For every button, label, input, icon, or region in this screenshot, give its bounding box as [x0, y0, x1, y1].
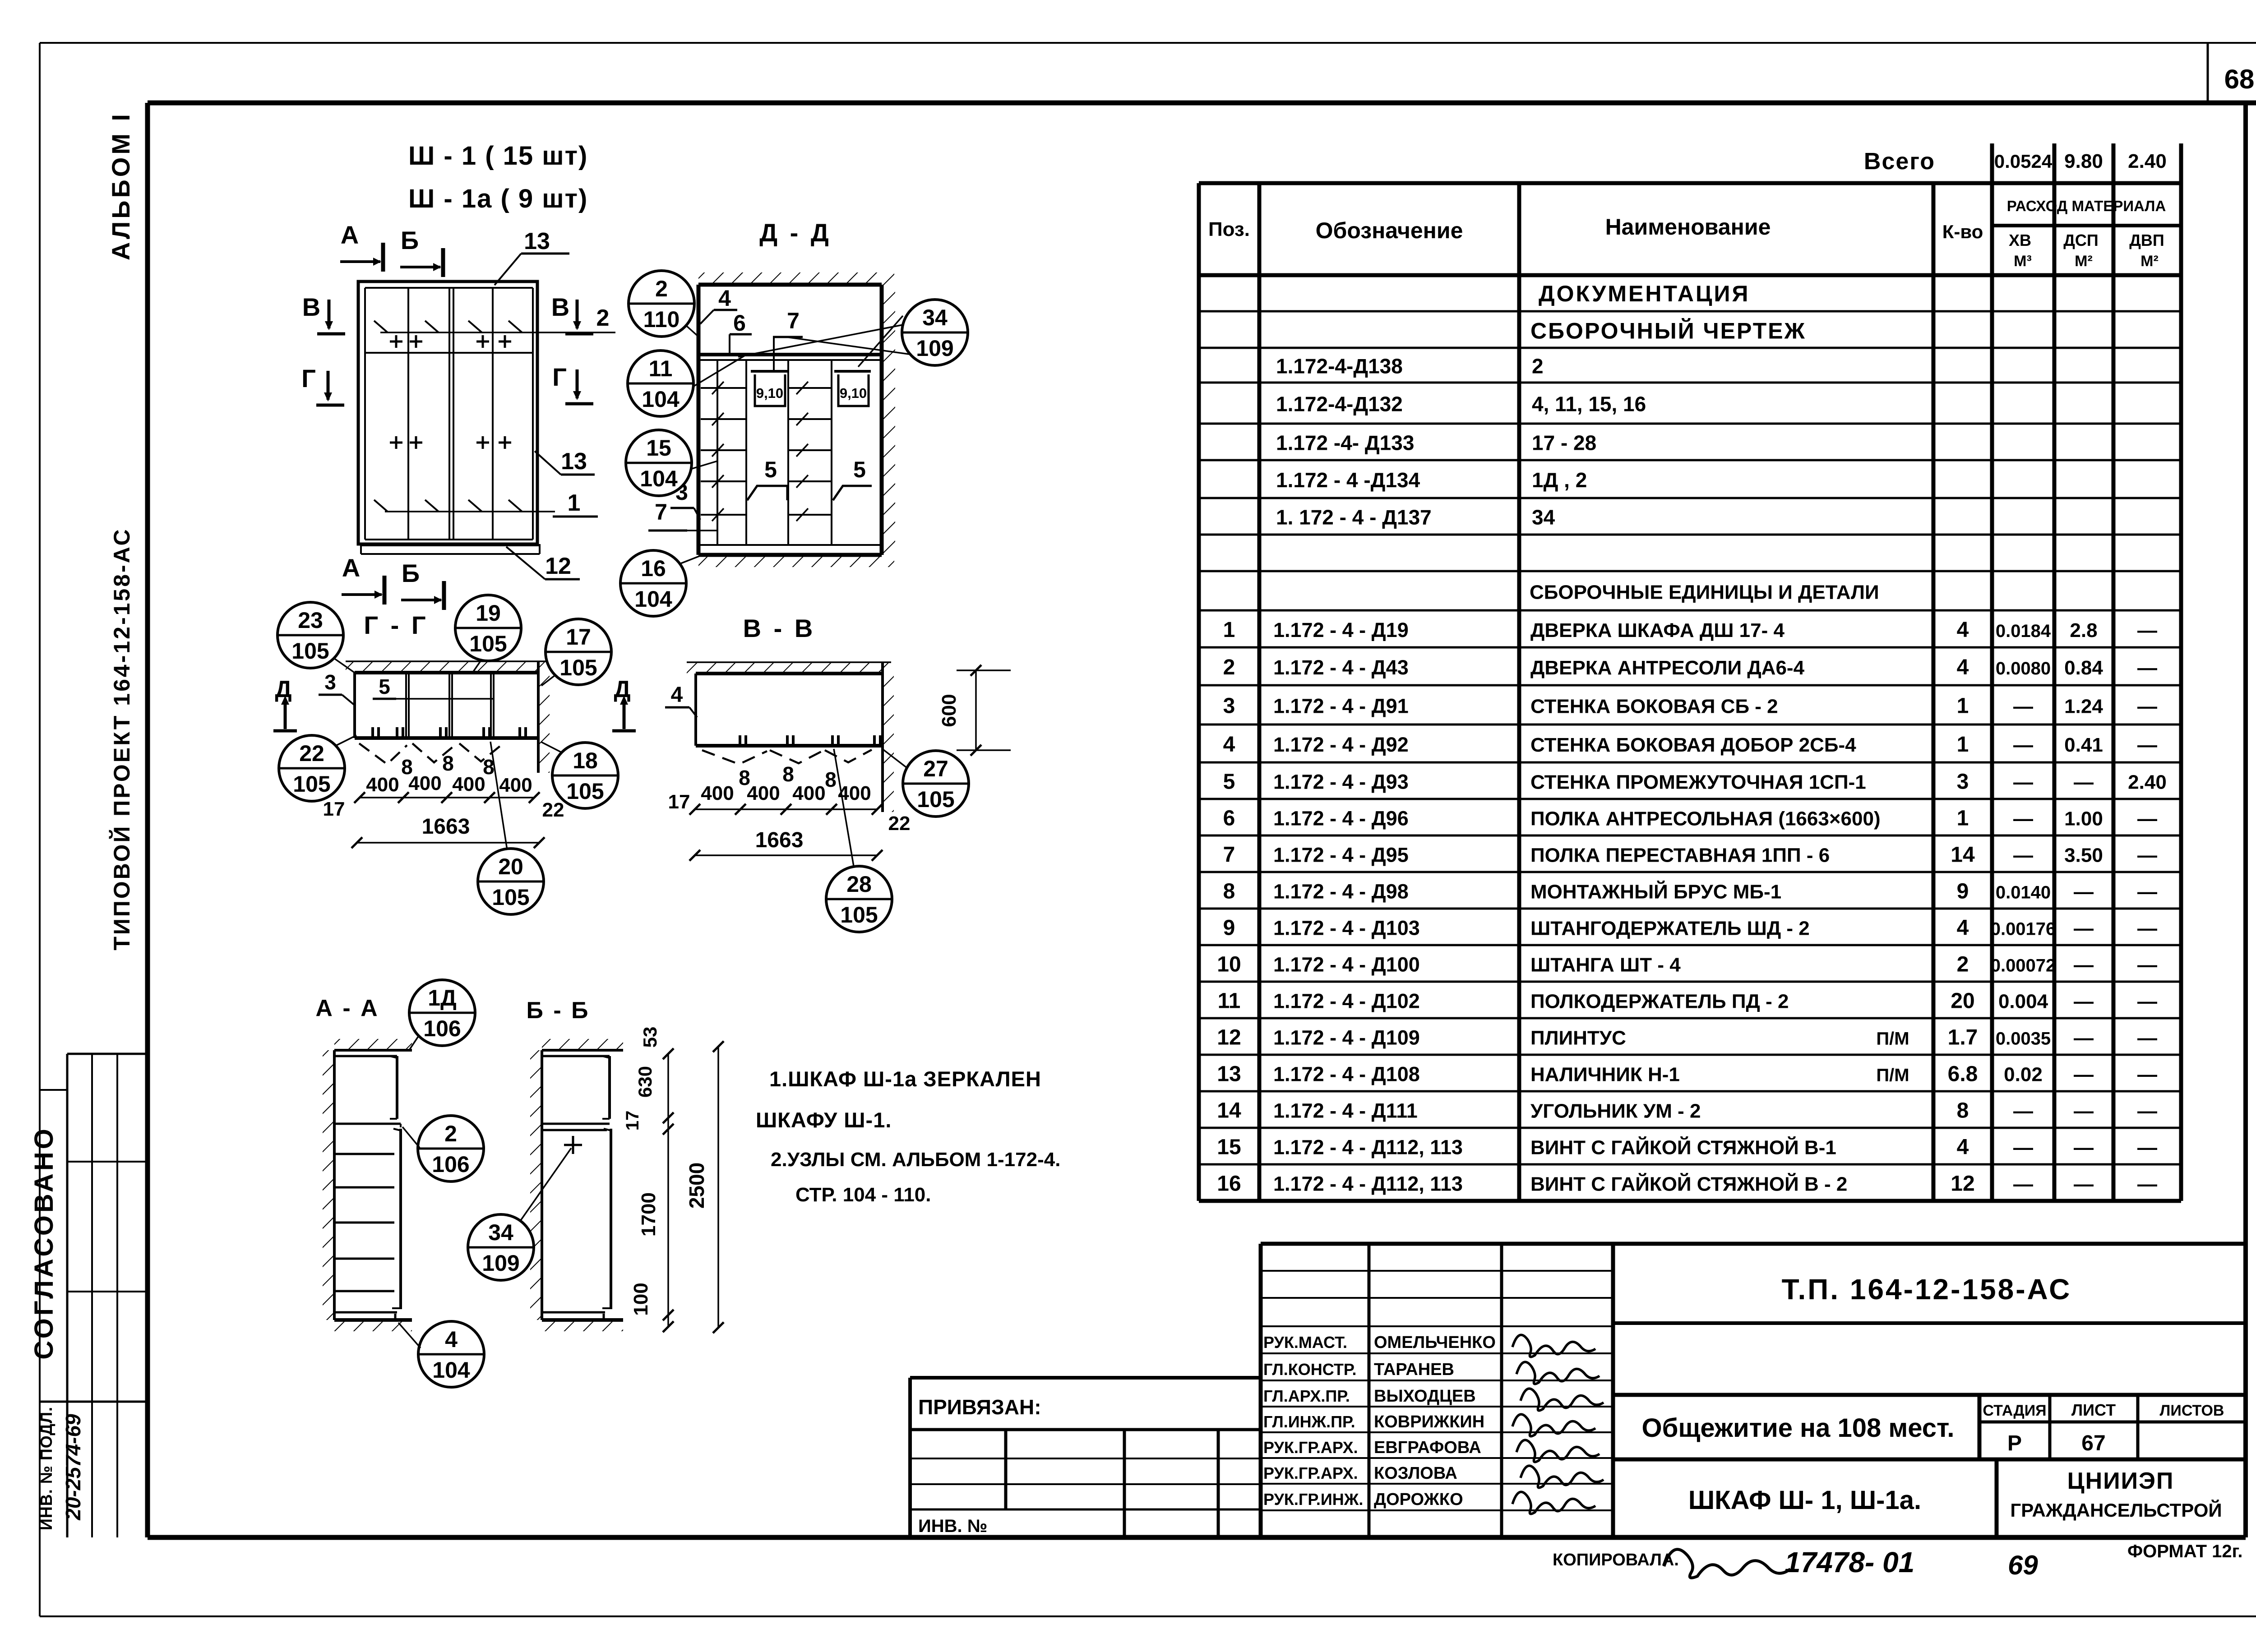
svg-text:19: 19 [476, 600, 501, 626]
svg-text:ВИНТ С ГАЙКОЙ СТЯЖНОЙ В-1: ВИНТ С ГАЙКОЙ СТЯЖНОЙ В-1 [1530, 1136, 1836, 1159]
svg-text:34: 34 [922, 305, 948, 330]
svg-text:ПОЛКА АНТРЕСОЛЬНАЯ (1663×600): ПОЛКА АНТРЕСОЛЬНАЯ (1663×600) [1530, 808, 1881, 830]
svg-text:7: 7 [787, 308, 800, 333]
svg-text:14: 14 [1217, 1099, 1241, 1123]
svg-text:РУК.ГР.АРХ.: РУК.ГР.АРХ. [1263, 1464, 1358, 1482]
svg-text:10: 10 [1217, 953, 1241, 977]
svg-text:6.8: 6.8 [1948, 1062, 1978, 1086]
svg-text:КОВРИЖКИН: КОВРИЖКИН [1374, 1412, 1484, 1431]
svg-text:17: 17 [566, 624, 591, 650]
svg-text:105: 105 [566, 779, 604, 804]
svg-text:ЛИСТ: ЛИСТ [2071, 1401, 2116, 1419]
svg-text:105: 105 [840, 902, 878, 928]
svg-text:1.7: 1.7 [1948, 1026, 1978, 1050]
svg-text:20: 20 [498, 854, 523, 879]
svg-text:1.172 - 4 - Д103: 1.172 - 4 - Д103 [1273, 917, 1420, 940]
svg-text:Ш - 1а ( 9 шт): Ш - 1а ( 9 шт) [408, 184, 588, 213]
svg-text:Д: Д [275, 676, 291, 702]
svg-text:1.172-4-Д138: 1.172-4-Д138 [1276, 355, 1403, 378]
svg-text:2500: 2500 [685, 1163, 708, 1209]
svg-text:12: 12 [1217, 1026, 1241, 1050]
svg-text:—: — [2137, 734, 2157, 756]
svg-text:ШТАНГОДЕРЖАТЕЛЬ ШД - 2: ШТАНГОДЕРЖАТЕЛЬ ШД - 2 [1530, 918, 1810, 940]
svg-text:Обозначение: Обозначение [1316, 218, 1463, 243]
svg-text:2: 2 [596, 305, 610, 331]
svg-text:ШТАНГА ШТ - 4: ШТАНГА ШТ - 4 [1530, 954, 1681, 976]
svg-text:—: — [2074, 881, 2094, 903]
svg-text:—: — [2137, 657, 2157, 679]
svg-text:—: — [2137, 1100, 2157, 1122]
svg-text:ОМЕЛЬЧЕНКО: ОМЕЛЬЧЕНКО [1374, 1333, 1496, 1352]
svg-text:КОЗЛОВА: КОЗЛОВА [1374, 1464, 1457, 1483]
svg-text:ПРИВЯЗАН:: ПРИВЯЗАН: [918, 1395, 1041, 1419]
svg-text:Т.П. 164-12-158-АС: Т.П. 164-12-158-АС [1782, 1273, 2072, 1306]
svg-text:17 - 28: 17 - 28 [1532, 431, 1596, 455]
svg-text:2.40: 2.40 [2128, 150, 2167, 172]
svg-text:А - А: А - А [315, 995, 379, 1021]
svg-text:1700: 1700 [638, 1192, 660, 1237]
svg-text:ЛИСТОВ: ЛИСТОВ [2160, 1402, 2224, 1419]
svg-text:1.ШКАФ Ш-1а ЗЕРКАЛЕН: 1.ШКАФ Ш-1а ЗЕРКАЛЕН [769, 1067, 1041, 1091]
svg-text:14: 14 [1951, 843, 1975, 867]
svg-text:104: 104 [640, 466, 678, 491]
svg-text:0.0184: 0.0184 [1996, 621, 2051, 641]
svg-text:400: 400 [366, 774, 399, 796]
svg-text:105: 105 [492, 885, 529, 910]
svg-text:12: 12 [1951, 1172, 1974, 1196]
svg-text:4: 4 [445, 1327, 458, 1352]
svg-text:Д: Д [614, 676, 630, 702]
svg-text:0.00072: 0.00072 [1991, 956, 2056, 976]
svg-text:5: 5 [1223, 770, 1235, 794]
svg-text:ДСП: ДСП [2063, 231, 2099, 249]
svg-text:22: 22 [888, 812, 911, 835]
svg-text:ГРАЖДАНСЕЛЬСТРОЙ: ГРАЖДАНСЕЛЬСТРОЙ [2010, 1499, 2222, 1521]
svg-text:ДВЕРКА АНТРЕСОЛИ ДА6-4: ДВЕРКА АНТРЕСОЛИ ДА6-4 [1530, 657, 1805, 679]
svg-text:—: — [2137, 844, 2157, 867]
svg-text:34: 34 [488, 1220, 513, 1245]
svg-text:4, 11, 15, 16: 4, 11, 15, 16 [1532, 392, 1646, 416]
svg-text:53: 53 [639, 1027, 661, 1048]
svg-text:400: 400 [408, 772, 441, 794]
svg-text:0.0080: 0.0080 [1996, 659, 2051, 678]
svg-text:ИНВ. №: ИНВ. № [918, 1516, 987, 1536]
svg-text:69: 69 [2008, 1550, 2038, 1580]
svg-text:1: 1 [1223, 618, 1235, 642]
svg-text:7: 7 [1223, 843, 1235, 867]
svg-text:27: 27 [923, 756, 948, 781]
svg-text:1.00: 1.00 [2064, 808, 2103, 830]
svg-text:Г: Г [552, 363, 567, 391]
svg-text:0.00176: 0.00176 [1991, 919, 2056, 939]
svg-text:2: 2 [444, 1121, 457, 1146]
svg-text:—: — [2074, 1137, 2094, 1159]
svg-text:105: 105 [293, 771, 330, 797]
svg-text:1663: 1663 [755, 828, 804, 852]
svg-text:СОГЛАСОВАНО: СОГЛАСОВАНО [29, 1126, 59, 1360]
svg-text:13: 13 [524, 228, 550, 254]
svg-text:—: — [2013, 1137, 2033, 1159]
svg-text:Б: Б [402, 559, 420, 587]
svg-text:—: — [2074, 1027, 2094, 1049]
svg-text:4: 4 [671, 683, 683, 707]
svg-text:ШКАФУ Ш-1.: ШКАФУ Ш-1. [756, 1108, 892, 1132]
svg-text:Г - Г: Г - Г [364, 611, 428, 639]
svg-text:1: 1 [1957, 733, 1969, 757]
svg-text:1.172 - 4 - Д93: 1.172 - 4 - Д93 [1273, 771, 1409, 794]
svg-text:В: В [551, 293, 569, 321]
svg-text:400: 400 [499, 774, 532, 796]
svg-text:68: 68 [2224, 64, 2255, 94]
svg-text:—: — [2013, 808, 2033, 830]
svg-text:ДВП: ДВП [2129, 231, 2164, 249]
svg-text:НАЛИЧНИК Н-1: НАЛИЧНИК Н-1 [1530, 1064, 1680, 1086]
svg-text:0.0524: 0.0524 [1994, 151, 2053, 172]
svg-text:—: — [2013, 734, 2033, 756]
svg-text:СТЕНКА БОКОВАЯ СБ - 2: СТЕНКА БОКОВАЯ СБ - 2 [1530, 696, 1778, 718]
svg-text:—: — [2074, 1064, 2094, 1086]
svg-text:4: 4 [1957, 655, 1969, 679]
svg-text:ГЛ.ИНЖ.ПР.: ГЛ.ИНЖ.ПР. [1263, 1412, 1355, 1431]
svg-text:—: — [2074, 1100, 2094, 1122]
svg-text:105: 105 [291, 638, 329, 664]
svg-text:РАСХОД МАТЕРИАЛА: РАСХОД МАТЕРИАЛА [2007, 198, 2166, 214]
svg-text:105: 105 [917, 787, 954, 812]
svg-text:Поз.: Поз. [1208, 218, 1250, 240]
svg-text:Б - Б: Б - Б [527, 997, 590, 1024]
svg-text:1.172 - 4 - Д43: 1.172 - 4 - Д43 [1273, 656, 1409, 679]
svg-text:1.172 - 4 -Д134: 1.172 - 4 -Д134 [1276, 468, 1420, 492]
svg-text:2: 2 [655, 276, 668, 301]
svg-text:67: 67 [2081, 1431, 2105, 1455]
svg-text:—: — [2074, 954, 2094, 976]
svg-text:ПОЛКОДЕРЖАТЕЛЬ ПД - 2: ПОЛКОДЕРЖАТЕЛЬ ПД - 2 [1530, 991, 1789, 1013]
svg-text:ТАРАНЕВ: ТАРАНЕВ [1374, 1360, 1454, 1379]
svg-text:—: — [2137, 619, 2157, 641]
svg-text:17478- 01: 17478- 01 [1784, 1546, 1914, 1578]
svg-text:104: 104 [642, 387, 680, 412]
svg-text:СБОРОЧНЫЕ ЕДИНИЦЫ И ДЕТАЛИ: СБОРОЧНЫЕ ЕДИНИЦЫ И ДЕТАЛИ [1530, 581, 1879, 604]
svg-text:А: А [341, 221, 359, 249]
svg-text:ШКАФ Ш- 1, Ш-1а.: ШКАФ Ш- 1, Ш-1а. [1688, 1486, 1921, 1515]
svg-text:—: — [2013, 696, 2033, 718]
svg-text:—: — [2013, 844, 2033, 867]
svg-text:17: 17 [623, 1111, 643, 1131]
svg-text:—: — [2137, 696, 2157, 718]
svg-text:ГЛ.АРХ.ПР.: ГЛ.АРХ.ПР. [1263, 1387, 1350, 1405]
svg-text:—: — [2074, 918, 2094, 940]
svg-text:ПОЛКА ПЕРЕСТАВНАЯ 1ПП - 6: ПОЛКА ПЕРЕСТАВНАЯ 1ПП - 6 [1530, 844, 1830, 867]
svg-text:8: 8 [1957, 1099, 1969, 1123]
svg-text:4: 4 [718, 286, 731, 311]
svg-text:Б: Б [401, 226, 419, 254]
svg-text:3: 3 [1957, 770, 1969, 794]
svg-text:ВЫХОДЦЕВ: ВЫХОДЦЕВ [1374, 1387, 1476, 1406]
svg-text:15: 15 [1217, 1135, 1241, 1159]
svg-text:2.УЗЛЫ СМ. АЛЬБОМ 1-172-4.: 2.УЗЛЫ СМ. АЛЬБОМ 1-172-4. [771, 1149, 1060, 1171]
svg-text:—: — [2137, 954, 2157, 976]
svg-text:15: 15 [646, 435, 671, 461]
svg-text:ГЛ.КОНСТР.: ГЛ.КОНСТР. [1263, 1360, 1356, 1379]
svg-text:22: 22 [542, 799, 564, 821]
svg-text:0.0035: 0.0035 [1996, 1029, 2051, 1049]
svg-text:2.8: 2.8 [2070, 619, 2097, 641]
svg-text:1: 1 [1957, 694, 1969, 718]
svg-text:1.172 - 4 - Д19: 1.172 - 4 - Д19 [1273, 618, 1409, 641]
svg-text:СТЕНКА БОКОВАЯ ДОБОР 2СБ-4: СТЕНКА БОКОВАЯ ДОБОР 2СБ-4 [1530, 734, 1856, 756]
svg-text:ИНВ. № ПОДЛ.: ИНВ. № ПОДЛ. [37, 1407, 55, 1530]
svg-text:ХВ: ХВ [2009, 231, 2031, 249]
svg-text:—: — [2137, 918, 2157, 940]
svg-text:12: 12 [545, 553, 571, 579]
svg-text:9.80: 9.80 [2064, 150, 2103, 172]
svg-text:—: — [2137, 808, 2157, 830]
svg-text:1.172 - 4 - Д95: 1.172 - 4 - Д95 [1273, 844, 1409, 867]
svg-text:13: 13 [1217, 1062, 1241, 1086]
svg-text:—: — [2137, 1027, 2157, 1049]
svg-text:АЛЬБОМ I: АЛЬБОМ I [106, 111, 135, 260]
svg-text:1: 1 [568, 490, 581, 516]
svg-text:2: 2 [1223, 655, 1235, 679]
svg-text:1Д , 2: 1Д , 2 [1532, 468, 1587, 492]
svg-text:8: 8 [442, 752, 454, 775]
svg-text:1.172 - 4 - Д112, 113: 1.172 - 4 - Д112, 113 [1273, 1136, 1463, 1159]
svg-text:0.02: 0.02 [2004, 1064, 2043, 1086]
svg-text:КОПИРОВАЛА.: КОПИРОВАЛА. [1553, 1550, 1679, 1569]
svg-text:105: 105 [469, 631, 507, 656]
svg-text:5: 5 [379, 675, 390, 698]
svg-text:П/М: П/М [1876, 1029, 1909, 1049]
svg-text:ВИНТ С ГАЙКОЙ СТЯЖНОЙ В -: ВИНТ С ГАЙКОЙ СТЯЖНОЙ В - 2 [1530, 1172, 1847, 1195]
svg-text:—: — [2074, 991, 2094, 1013]
svg-text:400: 400 [747, 782, 780, 804]
svg-text:4: 4 [1957, 916, 1969, 940]
svg-text:В - В: В - В [743, 614, 816, 642]
svg-text:1.172 - 4 - Д100: 1.172 - 4 - Д100 [1273, 953, 1420, 976]
svg-text:СТАДИЯ: СТАДИЯ [1983, 1402, 2046, 1419]
svg-text:М²: М² [2075, 253, 2093, 270]
svg-text:11: 11 [1218, 989, 1241, 1013]
svg-text:1Д: 1Д [428, 985, 456, 1011]
svg-text:109: 109 [482, 1251, 519, 1276]
svg-text:ПЛИНТУС: ПЛИНТУС [1530, 1027, 1626, 1049]
svg-text:0.41: 0.41 [2064, 734, 2103, 756]
svg-text:5: 5 [853, 457, 866, 482]
svg-text:4: 4 [1223, 733, 1235, 757]
svg-text:1: 1 [1957, 807, 1969, 831]
svg-text:УГОЛЬНИК УМ - 2: УГОЛЬНИК УМ - 2 [1530, 1100, 1701, 1122]
svg-text:1.172 - 4 - Д108: 1.172 - 4 - Д108 [1273, 1063, 1420, 1086]
svg-text:104: 104 [432, 1357, 470, 1383]
svg-text:4: 4 [1957, 1135, 1969, 1159]
svg-text:106: 106 [432, 1152, 469, 1177]
svg-text:СТЕНКА ПРОМЕЖУТОЧНАЯ 1СП-1: СТЕНКА ПРОМЕЖУТОЧНАЯ 1СП-1 [1530, 771, 1866, 794]
svg-text:1663: 1663 [422, 815, 470, 839]
svg-text:М²: М² [2140, 253, 2159, 270]
svg-text:ДОКУМЕНТАЦИЯ: ДОКУМЕНТАЦИЯ [1539, 281, 1750, 306]
svg-text:2: 2 [1957, 953, 1969, 977]
svg-text:В: В [302, 293, 320, 321]
svg-text:РУК.ГР.ИНЖ.: РУК.ГР.ИНЖ. [1263, 1490, 1363, 1509]
svg-text:110: 110 [643, 307, 680, 332]
svg-text:100: 100 [630, 1283, 652, 1315]
svg-text:1.172 - 4 - Д91: 1.172 - 4 - Д91 [1273, 695, 1409, 718]
svg-text:Всего: Всего [1864, 148, 1935, 175]
svg-text:СТР. 104 - 110.: СТР. 104 - 110. [795, 1184, 931, 1206]
svg-text:1.172 - 4 - Д111: 1.172 - 4 - Д111 [1273, 1099, 1418, 1122]
svg-text:600: 600 [938, 694, 960, 727]
svg-text:109: 109 [916, 336, 953, 361]
svg-text:Ш - 1 ( 15 шт): Ш - 1 ( 15 шт) [408, 141, 588, 171]
svg-text:ДОРОЖКО: ДОРОЖКО [1374, 1490, 1463, 1509]
svg-text:—: — [2137, 1173, 2157, 1195]
svg-text:2: 2 [1532, 355, 1544, 378]
svg-text:9,10: 9,10 [840, 385, 867, 401]
svg-text:ЕВГРАФОВА: ЕВГРАФОВА [1374, 1438, 1481, 1457]
svg-text:8: 8 [1223, 880, 1235, 904]
svg-text:8: 8 [825, 768, 837, 791]
svg-text:1.24: 1.24 [2064, 696, 2103, 718]
svg-text:МОНТАЖНЫЙ БРУС МБ-1: МОНТАЖНЫЙ БРУС МБ-1 [1530, 880, 1781, 903]
svg-text:—: — [2137, 991, 2157, 1013]
svg-text:А: А [342, 554, 360, 582]
svg-text:400: 400 [701, 782, 734, 804]
svg-text:34: 34 [1532, 506, 1555, 529]
svg-text:18: 18 [573, 748, 598, 773]
svg-text:РУК.ГР.АРХ.: РУК.ГР.АРХ. [1263, 1438, 1358, 1457]
svg-text:—: — [2013, 1100, 2033, 1122]
svg-text:17: 17 [668, 791, 690, 813]
svg-text:4: 4 [1957, 618, 1969, 642]
svg-text:Д - Д: Д - Д [759, 218, 832, 247]
svg-text:1. 172 - 4 - Д137: 1. 172 - 4 - Д137 [1276, 506, 1432, 529]
svg-text:9,10: 9,10 [756, 385, 783, 401]
svg-text:1.172 - 4 - Д102: 1.172 - 4 - Д102 [1273, 990, 1420, 1013]
svg-text:630: 630 [634, 1066, 656, 1098]
svg-text:104: 104 [634, 586, 672, 612]
svg-text:9: 9 [1223, 916, 1235, 940]
svg-text:20: 20 [1951, 989, 1974, 1013]
svg-text:—: — [2137, 1064, 2157, 1086]
svg-text:1.172-4-Д132: 1.172-4-Д132 [1276, 392, 1403, 416]
svg-text:13: 13 [561, 448, 587, 475]
svg-text:3: 3 [324, 670, 336, 694]
svg-text:7: 7 [655, 499, 667, 525]
svg-text:1.172 - 4 - Д109: 1.172 - 4 - Д109 [1273, 1026, 1420, 1049]
svg-text:Р: Р [2007, 1431, 2022, 1455]
svg-text:—: — [2137, 1137, 2157, 1159]
svg-text:СБОРОЧНЫЙ ЧЕРТЕЖ: СБОРОЧНЫЙ ЧЕРТЕЖ [1530, 318, 1806, 344]
svg-text:М³: М³ [2014, 253, 2032, 270]
svg-text:5: 5 [764, 457, 777, 482]
svg-text:400: 400 [452, 773, 485, 795]
svg-text:1.172 -4- Д133: 1.172 -4- Д133 [1276, 431, 1414, 455]
svg-text:105: 105 [559, 655, 597, 680]
svg-text:16: 16 [641, 556, 666, 581]
svg-text:1.172 - 4 - Д92: 1.172 - 4 - Д92 [1273, 733, 1409, 756]
svg-text:1.172 - 4 - Д96: 1.172 - 4 - Д96 [1273, 807, 1409, 830]
svg-text:ТИПОВОЙ ПРОЕКТ 164-12-158-АС: ТИПОВОЙ ПРОЕКТ 164-12-158-АС [109, 527, 134, 950]
svg-text:400: 400 [792, 782, 825, 804]
svg-text:11: 11 [649, 356, 673, 381]
svg-text:1.172 - 4 - Д112, 113: 1.172 - 4 - Д112, 113 [1273, 1172, 1463, 1195]
svg-text:20-2574-69: 20-2574-69 [61, 1414, 85, 1521]
svg-text:0.0140: 0.0140 [1996, 883, 2051, 903]
svg-text:П/М: П/М [1876, 1066, 1909, 1085]
svg-text:9: 9 [1957, 880, 1969, 904]
svg-text:РУК.МАСТ.: РУК.МАСТ. [1263, 1333, 1347, 1352]
svg-text:ФОРМАТ 12г.: ФОРМАТ 12г. [2127, 1541, 2242, 1561]
svg-text:23: 23 [298, 608, 323, 633]
svg-text:28: 28 [846, 872, 872, 897]
svg-text:2.40: 2.40 [2128, 771, 2167, 794]
svg-text:Г: Г [301, 364, 316, 392]
svg-text:3: 3 [1223, 694, 1235, 718]
svg-text:106: 106 [423, 1016, 461, 1041]
svg-text:Общежитие на 108 мест.: Общежитие на 108 мест. [1642, 1413, 1955, 1443]
svg-text:ДВЕРКА ШКАФА ДШ 17- 4: ДВЕРКА ШКАФА ДШ 17- 4 [1530, 619, 1784, 641]
svg-text:6: 6 [733, 310, 746, 336]
svg-text:—: — [2074, 1173, 2094, 1195]
svg-text:—: — [2013, 771, 2033, 794]
svg-text:0.84: 0.84 [2064, 657, 2103, 679]
svg-text:3.50: 3.50 [2064, 844, 2103, 867]
svg-text:22: 22 [299, 741, 324, 766]
svg-text:—: — [2013, 1173, 2033, 1195]
svg-text:6: 6 [1223, 807, 1235, 831]
svg-text:17: 17 [323, 798, 345, 820]
svg-text:ЦНИИЭП: ЦНИИЭП [2067, 1468, 2174, 1494]
svg-text:1.172 - 4 - Д98: 1.172 - 4 - Д98 [1273, 880, 1409, 903]
svg-text:0.004: 0.004 [1998, 991, 2048, 1013]
svg-text:К-во: К-во [1942, 221, 1983, 242]
svg-text:16: 16 [1217, 1172, 1241, 1196]
svg-text:—: — [2074, 771, 2094, 794]
svg-text:—: — [2137, 881, 2157, 903]
svg-text:Наименование: Наименование [1605, 214, 1771, 240]
